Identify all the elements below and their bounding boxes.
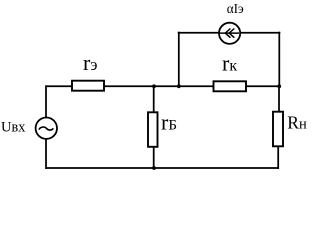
resistor rэ (horizontal box) [72,81,104,91]
wire: left vertical below source [45,139,47,169]
wire: current-source loop top left segment [178,32,219,34]
current source αIэ (circle with double arrow) [219,23,240,44]
wire: bottom horizontal return bus [46,167,279,169]
wire: r_B branch upper segment [153,86,155,112]
wire: R_n bottom lead [277,147,279,170]
wire: current-source loop left vertical [178,32,180,87]
wire: r_B branch lower segment [153,148,155,169]
resistor rк (horizontal box) [214,81,247,91]
svg-text:Uвх: Uвх [1,120,25,136]
voltage source Uвх (circle with sine) [36,118,57,139]
junction: loop left node [177,84,181,88]
resistor rБ (vertical box) [148,112,158,147]
junction: right node [277,84,281,88]
resistor Rн (vertical box) [273,112,283,147]
wire: current-source loop right vertical down to node [278,32,280,87]
wire: left vertical above source [45,85,47,117]
junction: rБ top node [152,84,156,88]
wire: current-source loop top right segment [241,32,280,34]
wire: right vertical from node to R_n [278,86,280,112]
svg-text:αIэ: αIэ [227,1,244,16]
wire: top horizontal bus from source to right node [46,85,279,87]
junction: rБ bottom node [152,166,156,170]
